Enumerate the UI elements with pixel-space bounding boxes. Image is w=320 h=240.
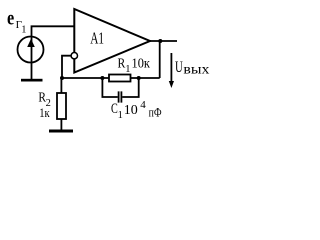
svg-text:e: e (7, 8, 14, 30)
node: inverting junction dot (60, 76, 64, 80)
node: cap right junction dot (137, 76, 141, 80)
svg-text:пФ: пФ (149, 105, 162, 119)
resistor R1 box (109, 75, 131, 82)
wire: capacitor branch left leg (102, 78, 117, 97)
svg-text:вых: вых (183, 62, 209, 77)
ground (under R2) (49, 130, 73, 133)
wire: capacitor branch right leg (122, 78, 139, 97)
resistor R2 box (57, 93, 66, 119)
node: output junction dot (158, 39, 162, 43)
U_вых arrow (169, 53, 174, 88)
label R1 10к (118, 56, 151, 75)
wire: feedback rail (62, 77, 160, 79)
wire: source top lead, bend, to op-amp non-inverting input (32, 26, 75, 79)
wire: op-amp output (150, 40, 177, 42)
label U_вых (175, 59, 210, 77)
svg-text:U: U (175, 59, 183, 76)
label R2 1к (38, 91, 50, 120)
label C1 10^4 пФ (111, 99, 162, 121)
svg-text:1: 1 (118, 110, 123, 121)
ground (under source) (21, 79, 43, 82)
svg-text:4: 4 (140, 99, 146, 111)
source arrow (EMF direction) (27, 39, 35, 47)
label e_г1 (source EMF label) (7, 8, 26, 36)
wire: R2 top lead (60, 78, 62, 93)
capacitor C1 plates (119, 91, 122, 102)
inverting input open circle (71, 53, 77, 59)
source E1 circle (18, 37, 44, 63)
wire: inverting input to feedback rail (62, 56, 71, 78)
svg-text:10к: 10к (132, 56, 151, 71)
wire: feedback vertical to output (159, 41, 161, 78)
svg-text:1: 1 (21, 25, 26, 36)
op-amp U1 triangle (74, 9, 150, 73)
node: cap left junction dot (100, 76, 104, 80)
wire: R2 bottom lead (60, 119, 62, 130)
svg-text:A1: A1 (90, 28, 104, 47)
svg-text:1: 1 (125, 64, 130, 75)
svg-text:1к: 1к (39, 105, 50, 120)
svg-text:10: 10 (124, 103, 138, 118)
